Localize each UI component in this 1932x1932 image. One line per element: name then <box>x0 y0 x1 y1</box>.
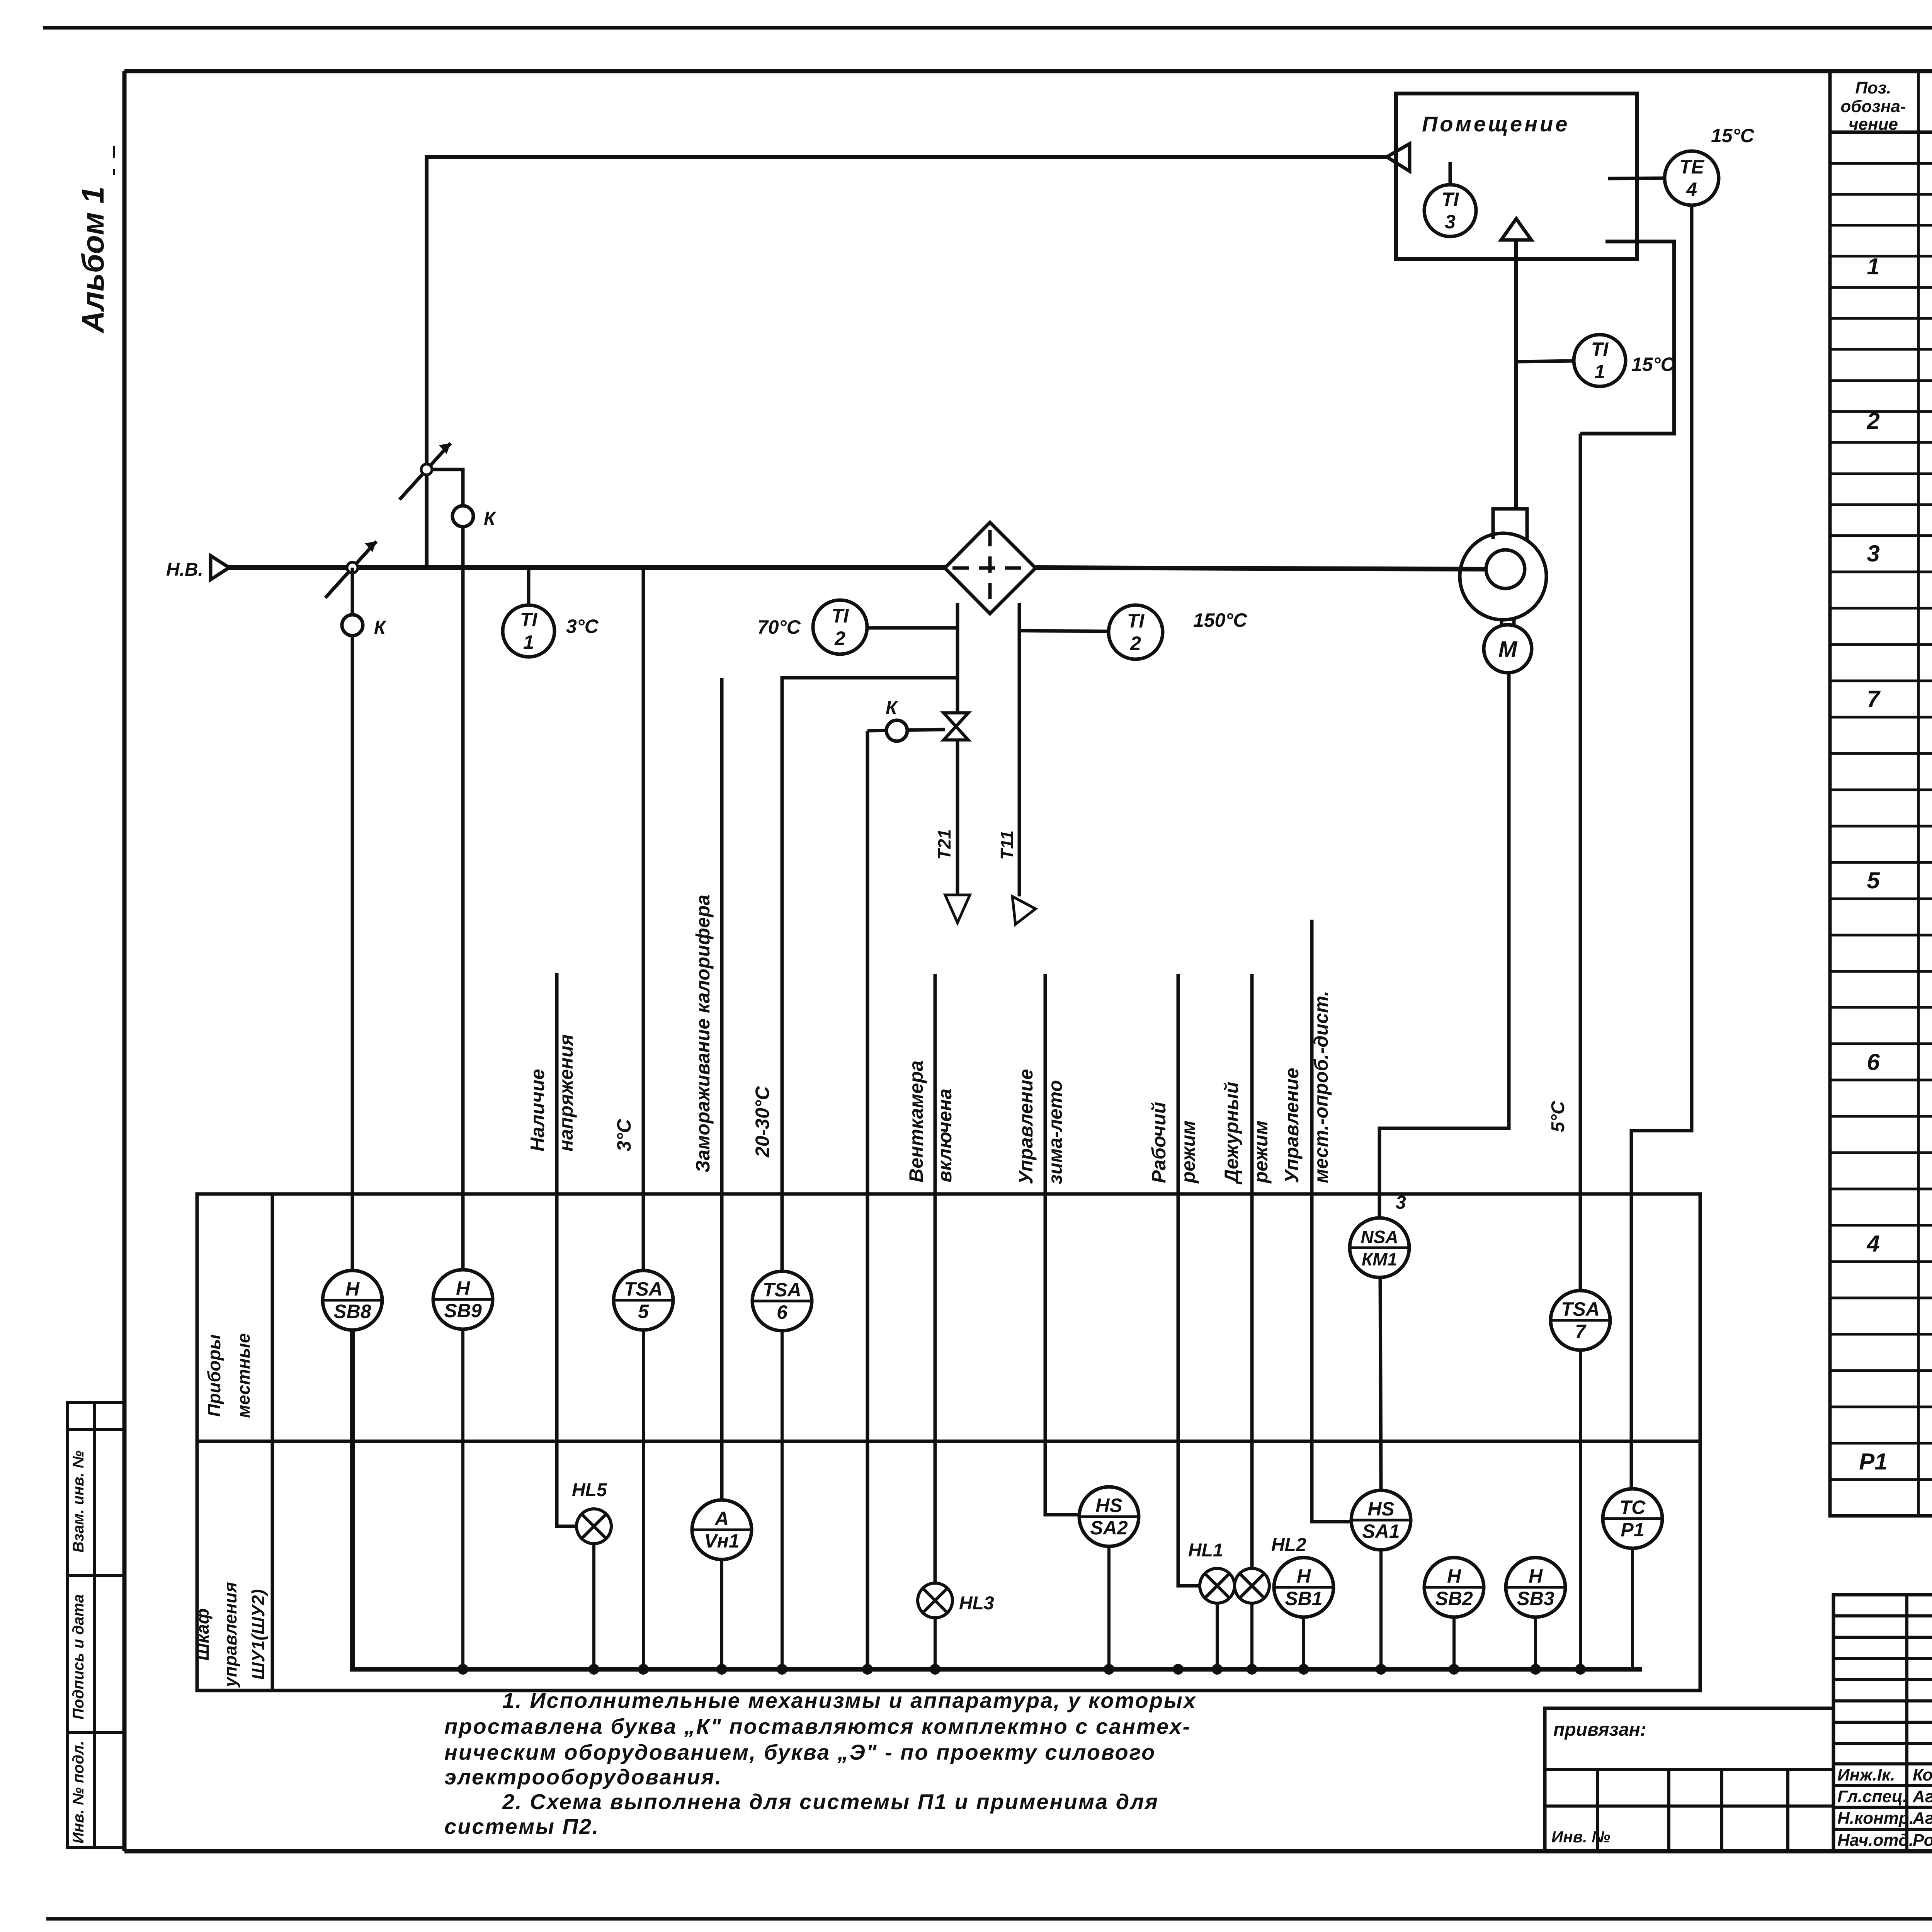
svg-text:Агеев: Агеев <box>1912 1809 1932 1828</box>
svg-text:ническим оборудованием, буква: ническим оборудованием, буква „Э" - по п… <box>444 1740 1156 1764</box>
svg-text:TI: TI <box>1591 338 1609 360</box>
svg-text:включена: включена <box>934 1088 956 1182</box>
svg-text:Наличие: Наличие <box>527 1069 548 1151</box>
row labels <box>192 1333 268 1688</box>
svg-text:4: 4 <box>1686 179 1697 200</box>
svg-text:Шкаф: Шкаф <box>192 1608 213 1660</box>
svg-text:2: 2 <box>1130 633 1141 654</box>
svg-text:2. Схема выполнена для сист: 2. Схема выполнена для системы П1 и прим… <box>502 1789 1159 1814</box>
L4: 3C line to TSA5 <box>642 568 645 1270</box>
svg-text:Т21: Т21 <box>934 829 954 860</box>
svg-text:4: 4 <box>1866 1231 1879 1257</box>
svg-text:TI: TI <box>520 609 538 631</box>
NSA to HS/SA1 link <box>1380 1277 1381 1490</box>
instrument NSA KM1 <box>1350 1218 1409 1277</box>
exhaust line 5C down to TSA7 <box>1579 434 1582 1291</box>
svg-text:Инж.Iк.: Инж.Iк. <box>1837 1765 1895 1784</box>
room supply arrow <box>1387 144 1410 171</box>
instrument TE4 <box>1665 151 1719 205</box>
svg-text:TI: TI <box>1442 189 1459 210</box>
svg-text:НS: НS <box>1095 1495 1122 1516</box>
svg-text:Р1: Р1 <box>1859 1449 1887 1475</box>
svg-text:TI: TI <box>1127 610 1145 632</box>
svg-text:К: К <box>886 698 898 718</box>
instrument TI1 supply <box>1574 335 1626 386</box>
instrument H SB8 <box>323 1270 382 1330</box>
svg-text:ТС: ТС <box>1620 1497 1646 1518</box>
svg-text:Розанов: Розанов <box>1913 1831 1932 1850</box>
notes <box>444 1688 1197 1838</box>
svg-text:1: 1 <box>523 631 534 653</box>
svg-text:Рабочий: Рабочий <box>1148 1102 1170 1183</box>
svg-text:Козлова: Козлова <box>1913 1765 1932 1784</box>
svg-text:7: 7 <box>1575 1321 1587 1342</box>
fan outlet riser <box>1514 240 1518 509</box>
motor M <box>1484 625 1532 673</box>
svg-text:мест.-опроб.-дист.: мест.-опроб.-дист. <box>1310 991 1332 1183</box>
L1: damper K line to HSB8 <box>351 568 354 1270</box>
heater pipe T11 (right) <box>1018 603 1021 896</box>
instrument TSA7 <box>1551 1291 1610 1350</box>
svg-text:Н: Н <box>1447 1565 1461 1587</box>
room box <box>1396 94 1637 259</box>
svg-text:6: 6 <box>777 1301 788 1323</box>
TE4 stub <box>1608 178 1665 179</box>
svg-text:SВ8: SВ8 <box>333 1301 371 1322</box>
svg-text:7: 7 <box>1867 686 1881 712</box>
svg-text:Замораживание калорифера: Замораживание калорифера <box>692 895 714 1173</box>
TI1 fresh air <box>527 568 531 605</box>
svg-text:1: 1 <box>1594 361 1605 383</box>
heat exchanger (heater) <box>945 522 1036 614</box>
svg-text:Т11: Т11 <box>997 830 1017 860</box>
svg-text:15°С: 15°С <box>1631 354 1675 375</box>
lamp HL1 <box>1200 1568 1235 1603</box>
svg-text:НL1: НL1 <box>1188 1540 1223 1561</box>
instrument HS SA2 <box>1079 1487 1139 1546</box>
signature table <box>1833 1595 1932 1851</box>
fan <box>1460 509 1546 620</box>
L10: rabochiy rezhim to HL1 <box>1178 974 1200 1586</box>
svg-text:SВ3: SВ3 <box>1517 1588 1554 1609</box>
inlet arrow <box>211 556 229 580</box>
L3: nalichie napryazheniya <box>557 973 577 1526</box>
svg-text:ТSА: ТSА <box>1561 1298 1600 1320</box>
svg-text:TI: TI <box>832 605 849 627</box>
lamp HL5 <box>577 1509 611 1544</box>
instrument TI2 water supply <box>813 600 867 654</box>
junction dots <box>457 1664 1586 1675</box>
damper valve main duct <box>325 541 376 598</box>
svg-text:КМ1: КМ1 <box>1362 1249 1397 1269</box>
svg-text:Н: Н <box>456 1277 470 1299</box>
svg-text:Поз.: Поз. <box>1855 78 1891 97</box>
svg-text:3: 3 <box>1867 541 1879 566</box>
valve K circle and stub <box>867 730 945 731</box>
supply riser to room <box>427 157 1387 568</box>
room exhaust duct <box>1580 241 1674 434</box>
cabinet bus <box>352 1330 1642 1669</box>
svg-text:Vн1: Vн1 <box>704 1530 739 1552</box>
L9: upravlenie zima-leto to HS/SA2 <box>1045 974 1079 1515</box>
L8: ventkamera vklyuchena to HL3 <box>934 974 937 1583</box>
svg-text:Приборы: Приборы <box>204 1334 224 1417</box>
svg-text:6: 6 <box>1867 1049 1880 1075</box>
instrument TI2 water return <box>1109 605 1163 659</box>
svg-text:Подпись и дата: Подпись и дата <box>70 1594 87 1719</box>
svg-text:М: М <box>1498 637 1518 662</box>
sheet outer border top <box>43 26 1932 30</box>
svg-text:Инв. №: Инв. № <box>1551 1828 1610 1846</box>
damper valve riser <box>400 443 451 500</box>
svg-text:Нач.отд.: Нач.отд. <box>1837 1831 1913 1850</box>
svg-text:проставлена буква „К" поставл: проставлена буква „К" поставляются компл… <box>444 1714 1191 1738</box>
instrument H SB3 <box>1506 1558 1565 1617</box>
svg-text:2: 2 <box>834 628 845 649</box>
fold marks <box>113 146 115 158</box>
svg-text:20-30°С: 20-30°С <box>752 1086 773 1158</box>
svg-text:управления: управления <box>220 1582 240 1688</box>
svg-text:SА2: SА2 <box>1090 1517 1128 1539</box>
svg-text:SВ9: SВ9 <box>444 1300 481 1321</box>
svg-text:3°С: 3°С <box>613 1119 635 1151</box>
svg-text:SВ1: SВ1 <box>1285 1588 1322 1609</box>
svg-text:3: 3 <box>1445 211 1456 233</box>
instrument TI3 <box>1424 185 1476 236</box>
svg-text:Дежурный: Дежурный <box>1221 1082 1242 1185</box>
svg-text:5: 5 <box>1867 867 1880 893</box>
left margin stamps <box>68 1403 124 1847</box>
svg-text:НL5: НL5 <box>572 1480 607 1500</box>
svg-text:NSА: NSА <box>1361 1227 1398 1247</box>
svg-text:НL2: НL2 <box>1271 1535 1306 1555</box>
specification table grid <box>1830 71 1932 1516</box>
riser damper stub <box>432 469 463 506</box>
svg-text:обозна-: обозна- <box>1840 97 1906 116</box>
instrument H SB1 <box>1274 1558 1333 1617</box>
svg-text:привязан:: привязан: <box>1553 1719 1646 1740</box>
svg-text:Помещение: Помещение <box>1422 112 1570 136</box>
svg-text:К: К <box>484 509 497 529</box>
privyazan box <box>1545 1708 1833 1851</box>
svg-text:5°С: 5°С <box>1548 1100 1568 1132</box>
svg-text:2: 2 <box>1866 408 1879 434</box>
svg-text:5: 5 <box>638 1301 649 1322</box>
svg-text:Гл.спец.: Гл.спец. <box>1837 1787 1907 1806</box>
svg-text:Агеев: Агеев <box>1912 1787 1932 1806</box>
table headers <box>1840 78 1932 134</box>
heater pipe T21 (left) <box>956 603 959 713</box>
drops to bus <box>463 1329 1633 1669</box>
instrument H SB9 <box>433 1270 493 1329</box>
svg-text:Р1: Р1 <box>1621 1519 1644 1541</box>
svg-text:Н.В.: Н.В. <box>166 560 203 580</box>
svg-text:SА1: SА1 <box>1362 1520 1400 1542</box>
svg-text:К: К <box>374 617 387 638</box>
instrument TSA6 <box>752 1271 812 1331</box>
instrument TI1 fresh <box>503 605 554 657</box>
svg-text:150°С: 150°С <box>1193 609 1247 631</box>
svg-text:Управление: Управление <box>1281 1068 1303 1183</box>
svg-text:70°С: 70°С <box>757 616 801 638</box>
L7: K valve signal to bus <box>866 731 869 1669</box>
svg-text:Взам. инв. №: Взам. инв. № <box>70 1451 87 1553</box>
L2: riser K line to HSB9 <box>461 506 465 1270</box>
svg-text:Альбом 1: Альбом 1 <box>76 186 110 333</box>
svg-text:НL3: НL3 <box>959 1593 994 1614</box>
svg-text:TE: TE <box>1679 156 1705 178</box>
main air duct line <box>228 565 945 570</box>
L5: freeze protection to A/VH1 <box>720 678 724 1500</box>
L6: 20-30C line to TSA6 <box>782 678 957 1271</box>
svg-text:напряжения: напряжения <box>555 1034 577 1151</box>
table rows text <box>1859 168 1932 1511</box>
motor shaft <box>1500 619 1503 625</box>
svg-text:3°С: 3°С <box>566 616 599 637</box>
svg-text:Н: Н <box>1529 1565 1543 1587</box>
svg-text:ШУ1(ШУ2): ШУ1(ШУ2) <box>248 1589 268 1680</box>
svg-text:местные: местные <box>233 1333 253 1418</box>
instrument TSA5 <box>614 1270 673 1330</box>
svg-text:Н.контр.: Н.контр. <box>1837 1809 1914 1828</box>
svg-text:А: А <box>714 1508 729 1529</box>
svg-text:электрооборудования.: электрооборудования. <box>444 1765 722 1789</box>
lamp HL3 <box>918 1583 952 1618</box>
svg-text:1: 1 <box>1867 253 1879 279</box>
motor signal line <box>1379 673 1509 1218</box>
svg-text:ТSА: ТSА <box>763 1279 801 1301</box>
svg-text:режим: режим <box>1177 1121 1199 1184</box>
svg-text:системы П2.: системы П2. <box>444 1814 599 1838</box>
instrument TC P1 <box>1603 1489 1662 1548</box>
svg-text:Инв. № подл.: Инв. № подл. <box>70 1741 87 1844</box>
svg-text:Венткамера: Венткамера <box>905 1061 927 1182</box>
svg-text:Н: Н <box>1297 1565 1311 1587</box>
svg-text:SВ2: SВ2 <box>1435 1588 1473 1609</box>
instrument A VH1 <box>692 1500 752 1560</box>
svg-text:режим: режим <box>1250 1121 1272 1184</box>
T21 end arrow <box>945 895 970 923</box>
instrument HS SA1 <box>1351 1490 1411 1550</box>
control valve on T21 <box>944 713 968 740</box>
TE4 signal line with jog <box>1631 205 1692 1489</box>
svg-text:НS: НS <box>1367 1498 1394 1520</box>
lamp HL2 <box>1235 1568 1269 1603</box>
TI3 stem <box>1449 162 1452 185</box>
svg-text:зима-лето: зима-лето <box>1044 1080 1066 1184</box>
svg-text:Н: Н <box>345 1278 360 1300</box>
L11: dezhurny rezhim to HL2 <box>1250 974 1254 1568</box>
TI1 (room supply) stub <box>1516 361 1574 362</box>
svg-text:15°С: 15°С <box>1711 125 1755 146</box>
instrument H SB2 <box>1424 1558 1484 1617</box>
svg-text:3: 3 <box>1396 1192 1406 1213</box>
instrument cabinet box <box>197 1194 1700 1690</box>
supply-into-room arrow <box>1501 219 1531 240</box>
svg-text:чение: чение <box>1849 115 1898 134</box>
T11 end arrow <box>1012 896 1036 924</box>
svg-text:ТSА: ТSА <box>624 1278 663 1300</box>
L12: upravlenie mest-oprob-dist to HS/SA1 <box>1312 920 1351 1522</box>
sheet outer border bottom <box>46 1917 1932 1921</box>
svg-text:Управление: Управление <box>1015 1069 1037 1184</box>
